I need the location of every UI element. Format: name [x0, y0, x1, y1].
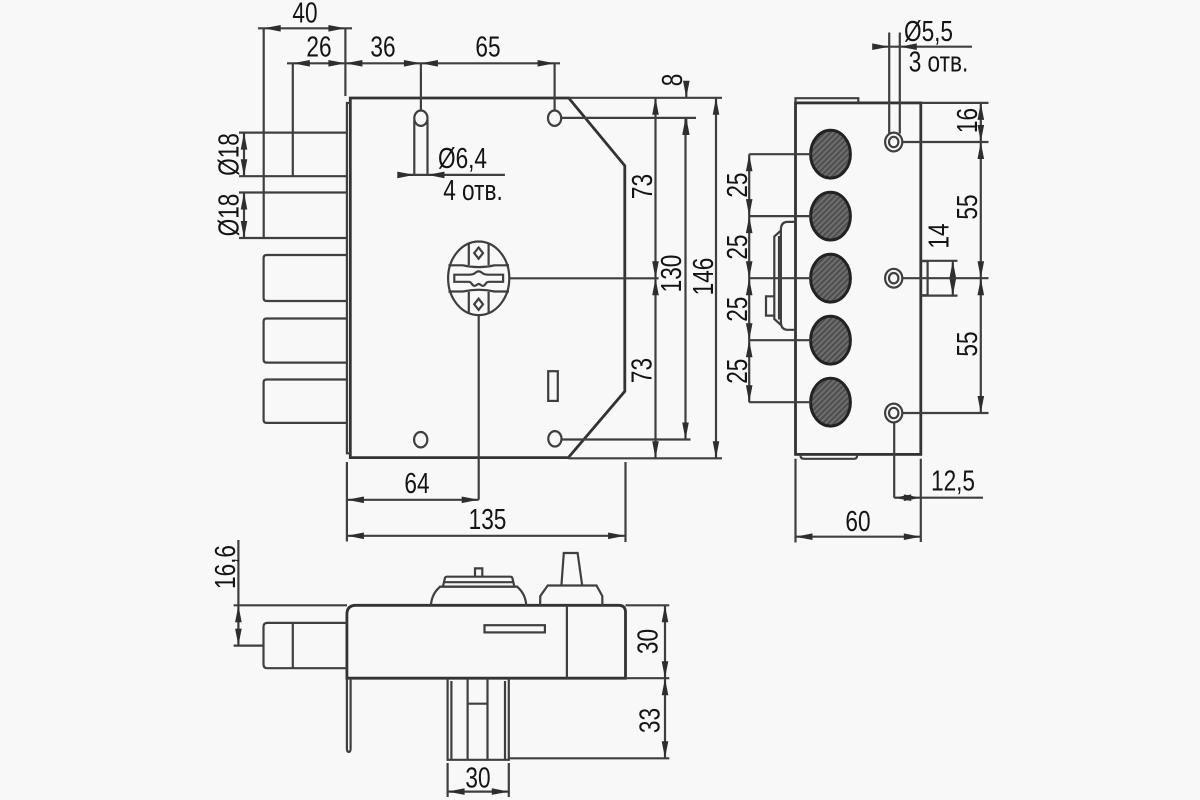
H1 reference line — [902, 141, 988, 143]
hatched bolt circle C1 — [811, 130, 851, 178]
dim 40 line — [258, 27, 352, 29]
svg-text:14: 14 — [922, 223, 955, 248]
dim 55 lower — [980, 278, 982, 413]
hatched bolt circle C3 — [811, 254, 851, 302]
side view: body — [796, 103, 921, 455]
bottom edge extension — [568, 457, 722, 459]
bottom view: cylinder housing — [448, 678, 509, 760]
keyhole: upper chord — [448, 265, 509, 267]
hatched bolt circle C2 — [811, 192, 851, 240]
bolt 2 — [239, 193, 347, 239]
hole bottom-right — [548, 431, 561, 446]
dim 64 — [347, 499, 479, 501]
svg-text:25: 25 — [720, 297, 753, 322]
bottom view: faceplate strip below — [347, 678, 351, 752]
screw hole H3 — [885, 404, 902, 423]
dim 130 — [684, 118, 686, 440]
dim D5.5 leader — [874, 46, 972, 48]
dim 14 — [952, 261, 954, 296]
extension line from C4 center — [749, 339, 811, 341]
front view: faceplate edge — [347, 103, 350, 453]
dim D5.5 extension lines — [889, 33, 900, 134]
dim 60 — [794, 459, 796, 543]
dim 55 upper — [980, 142, 982, 278]
svg-text:73: 73 — [625, 358, 658, 383]
side view: right snib tab — [921, 261, 928, 295]
snib reference lines — [921, 261, 958, 296]
dim 16.6 — [234, 605, 347, 645]
key cone base — [540, 586, 602, 606]
keyhole: vertical band — [469, 243, 489, 314]
bottom view: slot — [485, 625, 545, 632]
side view: left escutcheon profile — [781, 222, 796, 330]
housing bottom extension — [509, 757, 670, 759]
extension at x=345.4 — [344, 28, 346, 96]
escutcheon tab — [766, 296, 774, 315]
svg-text:146: 146 — [686, 258, 719, 296]
bottom view top edge extension — [626, 604, 670, 606]
svg-text:55: 55 — [950, 331, 983, 356]
dim D18 lower — [243, 193, 245, 239]
svg-text:30: 30 — [631, 629, 664, 654]
dim 146 — [715, 98, 717, 459]
svg-text:135: 135 — [469, 502, 507, 535]
bolt 5 — [264, 380, 347, 423]
svg-text:65: 65 — [475, 30, 500, 63]
dim 30 right — [664, 605, 666, 678]
dim 16 — [980, 103, 982, 142]
H3 reference line — [902, 412, 988, 414]
svg-text:3 отв.: 3 отв. — [909, 45, 969, 78]
svg-text:36: 36 — [370, 30, 395, 63]
svg-text:Ø18: Ø18 — [212, 194, 245, 237]
keyhole: key slot — [454, 271, 503, 286]
dim 135 — [347, 535, 625, 537]
thumbturn nub — [475, 568, 482, 576]
svg-text:40: 40 — [292, 0, 317, 29]
bottom view: bolt — [264, 623, 348, 668]
dim D6.4 leader line — [400, 174, 505, 176]
extension line from C5 center — [749, 401, 811, 403]
screw hole H2 — [885, 269, 902, 288]
keyhole: bottom rivet diamond — [474, 299, 483, 310]
keyhole reference line — [509, 277, 658, 279]
extension left edge down — [346, 462, 348, 542]
bolt 3 — [264, 255, 347, 301]
bottom view bottom edge extension — [626, 677, 670, 679]
extension line from C1 center — [749, 153, 811, 155]
svg-text:8: 8 — [655, 74, 688, 87]
dim 8 — [685, 82, 687, 134]
dim 30 bottom — [448, 763, 509, 797]
svg-text:16: 16 — [950, 108, 983, 133]
H2 reference line — [902, 277, 988, 279]
dim 73 upper — [654, 98, 656, 278]
side top edge extension — [921, 102, 989, 104]
bottom view: body — [347, 605, 626, 678]
top hole reference line — [561, 117, 696, 119]
hole bottom-left — [414, 432, 427, 447]
svg-text:12,5: 12,5 — [931, 464, 975, 497]
svg-text:25: 25 — [720, 235, 753, 260]
svg-text:60: 60 — [845, 504, 870, 537]
keyhole: lower chord — [448, 290, 509, 292]
svg-text:Ø18: Ø18 — [212, 133, 245, 176]
front view: lock body outline — [350, 98, 625, 458]
hole top-left tangent extension lines — [414, 63, 427, 175]
hatched bolt circle C4 — [811, 316, 851, 364]
svg-text:130: 130 — [654, 255, 687, 293]
hatched bolt circle C5 — [811, 378, 851, 426]
hole top-right — [548, 111, 561, 126]
svg-text:25: 25 — [720, 359, 753, 384]
svg-text:55: 55 — [950, 194, 983, 219]
bolt 1 (top deadbolt, front view) — [239, 133, 347, 177]
slot (lever opening) — [548, 371, 558, 401]
escutcheon band — [774, 231, 781, 326]
keyhole: top rivet diamond — [474, 248, 483, 259]
dim 12.5 — [893, 423, 895, 498]
dim row 26/36/65 line — [287, 62, 560, 64]
svg-text:4 отв.: 4 отв. — [443, 173, 503, 206]
svg-text:16,6: 16,6 — [208, 545, 241, 589]
svg-text:64: 64 — [404, 466, 429, 499]
dim 25 column — [748, 154, 750, 402]
extension line from C3 center — [749, 277, 811, 279]
bolt 1 step line — [292, 63, 294, 176]
bottom view: thumbturn base — [431, 587, 526, 606]
side view: bottom lip — [801, 454, 858, 458]
extension right edge down — [624, 462, 626, 542]
dim 33 — [664, 678, 666, 758]
bolt 4 — [264, 319, 347, 363]
svg-text:Ø5,5: Ø5,5 — [904, 14, 953, 47]
top edge extension — [569, 97, 722, 99]
svg-text:73: 73 — [625, 174, 658, 199]
svg-text:25: 25 — [720, 173, 753, 198]
bolt 2 left edge / 40-dim extension — [263, 28, 265, 238]
extension line from C2 center — [749, 215, 811, 217]
hole top-left (mount hole) — [414, 111, 427, 126]
svg-text:Ø6,4: Ø6,4 — [438, 141, 487, 174]
thumbturn band — [443, 577, 515, 587]
side view: top tab — [796, 98, 859, 103]
key cone — [561, 553, 582, 586]
bottom hole reference line — [562, 438, 691, 440]
dim D18 upper — [243, 133, 245, 177]
screw hole H1 — [885, 133, 902, 152]
svg-text:33: 33 — [633, 708, 666, 733]
keyhole: outer ellipse — [448, 241, 509, 315]
dim 73 lower — [654, 278, 656, 458]
keyhole: center stem line — [478, 315, 480, 500]
svg-text:30: 30 — [465, 761, 490, 794]
svg-text:26: 26 — [306, 30, 331, 63]
bottom view: divider line — [566, 605, 568, 678]
